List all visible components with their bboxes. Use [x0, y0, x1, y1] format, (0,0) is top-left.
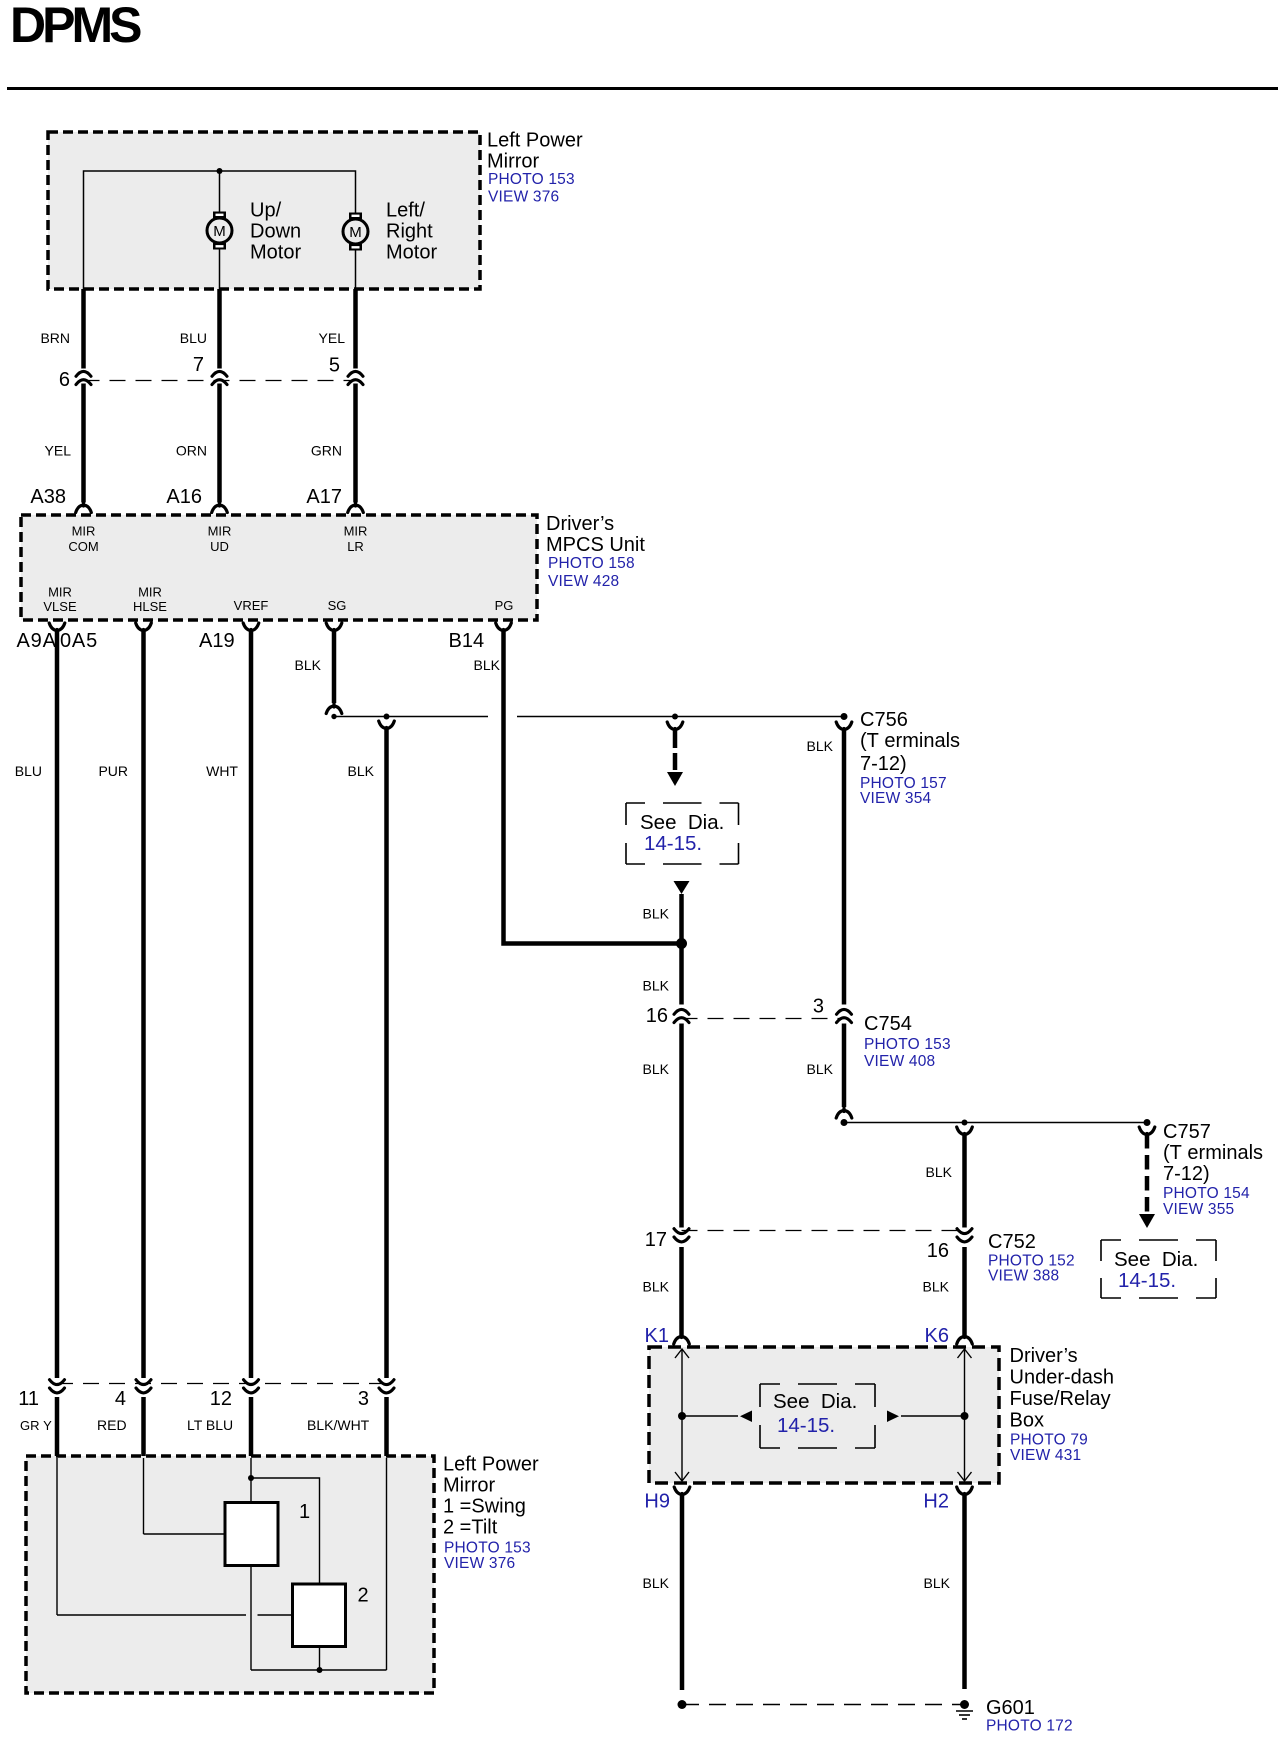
svg-text:VREF: VREF — [234, 598, 269, 613]
svg-text:YEL: YEL — [45, 443, 72, 459]
svg-text:RED: RED — [97, 1417, 127, 1433]
svg-text:K6: K6 — [925, 1325, 949, 1347]
svg-text:VIEW 376: VIEW 376 — [444, 1555, 515, 1572]
svg-text:A16: A16 — [166, 486, 202, 508]
svg-text:See Dia.: See Dia. — [640, 811, 724, 834]
svg-text:Right: Right — [386, 221, 433, 243]
svg-text:Fuse/Relay: Fuse/Relay — [1010, 1388, 1111, 1410]
svg-text:VIEW 431: VIEW 431 — [1010, 1447, 1081, 1464]
svg-text:(T erminals: (T erminals — [1163, 1142, 1263, 1164]
svg-text:Driver’s: Driver’s — [546, 513, 614, 535]
svg-text:A9A: A9A — [17, 630, 57, 652]
svg-text:BLK: BLK — [643, 1279, 670, 1295]
svg-text:VIEW 376: VIEW 376 — [488, 189, 559, 206]
svg-text:14-15.: 14-15. — [777, 1414, 835, 1437]
svg-text:COM: COM — [68, 539, 98, 554]
svg-text:A19: A19 — [199, 630, 235, 652]
svg-text:MIR: MIR — [48, 585, 72, 600]
svg-text:2: 2 — [358, 1585, 369, 1607]
svg-text:VIEW 388: VIEW 388 — [988, 1268, 1059, 1285]
svg-text:Motor: Motor — [250, 242, 301, 264]
svg-text:BLK: BLK — [923, 1279, 950, 1295]
svg-text:1 =Swing: 1 =Swing — [443, 1496, 526, 1518]
svg-text:16: 16 — [646, 1005, 668, 1027]
svg-text:H2: H2 — [923, 1491, 949, 1513]
svg-text:0A5: 0A5 — [60, 630, 98, 652]
svg-text:MIR: MIR — [344, 524, 368, 539]
svg-text:7-12): 7-12) — [1163, 1163, 1210, 1185]
svg-text:C757: C757 — [1163, 1121, 1211, 1143]
svg-text:Mirror: Mirror — [443, 1475, 496, 1497]
svg-text:PHOTO 158: PHOTO 158 — [548, 555, 635, 572]
svg-text:BLK: BLK — [807, 1061, 834, 1077]
svg-text:SG: SG — [328, 598, 347, 613]
svg-text:14-15.: 14-15. — [1118, 1269, 1176, 1292]
svg-text:C756: C756 — [860, 709, 908, 731]
svg-text:VIEW 408: VIEW 408 — [864, 1053, 935, 1070]
svg-text:PHOTO 153: PHOTO 153 — [488, 171, 575, 188]
svg-text:Left/: Left/ — [386, 200, 425, 222]
svg-text:PHOTO 153: PHOTO 153 — [444, 1540, 531, 1557]
svg-text:VIEW 354: VIEW 354 — [860, 790, 932, 807]
svg-text:ORN: ORN — [176, 443, 207, 459]
svg-text:VIEW 428: VIEW 428 — [548, 573, 619, 590]
svg-text:MPCS Unit: MPCS Unit — [546, 534, 645, 556]
svg-text:14-15.: 14-15. — [644, 832, 702, 855]
svg-text:BLK: BLK — [643, 1061, 670, 1077]
svg-text:Driver’s: Driver’s — [1010, 1345, 1078, 1367]
svg-text:BLU: BLU — [180, 330, 207, 346]
svg-text:BLK: BLK — [924, 1575, 951, 1591]
svg-text:Left Power: Left Power — [443, 1454, 539, 1476]
svg-text:PG: PG — [495, 598, 514, 613]
svg-text:LT BLU: LT BLU — [187, 1417, 233, 1433]
svg-text:A17: A17 — [306, 486, 342, 508]
svg-text:6: 6 — [59, 369, 70, 391]
svg-text:HLSE: HLSE — [133, 599, 167, 614]
svg-text:Up/: Up/ — [250, 200, 282, 222]
svg-text:Under-dash: Under-dash — [1010, 1367, 1115, 1389]
svg-text:GRN: GRN — [311, 443, 342, 459]
svg-text:B14: B14 — [449, 630, 485, 652]
svg-text:Left Power: Left Power — [487, 130, 583, 152]
svg-text:UD: UD — [210, 539, 229, 554]
svg-text:12: 12 — [210, 1388, 232, 1410]
svg-text:BLU: BLU — [15, 763, 42, 779]
svg-text:See Dia.: See Dia. — [773, 1390, 857, 1413]
svg-text:BLK: BLK — [926, 1164, 953, 1180]
svg-text:M: M — [349, 224, 362, 241]
svg-text:M: M — [213, 223, 226, 240]
svg-text:PHOTO 154: PHOTO 154 — [1163, 1185, 1250, 1202]
svg-text:YEL: YEL — [319, 330, 346, 346]
svg-text:(T erminals: (T erminals — [860, 730, 960, 752]
svg-text:7: 7 — [193, 354, 204, 376]
svg-text:16: 16 — [927, 1240, 949, 1262]
svg-text:11: 11 — [18, 1388, 39, 1410]
svg-text:VIEW 355: VIEW 355 — [1163, 1201, 1234, 1218]
svg-text:PUR: PUR — [98, 763, 128, 779]
svg-text:BLK: BLK — [643, 1575, 670, 1591]
svg-text:5: 5 — [329, 355, 340, 377]
svg-text:3: 3 — [358, 1388, 369, 1410]
svg-text:1: 1 — [299, 1501, 310, 1523]
svg-text:VLSE: VLSE — [43, 599, 77, 614]
svg-text:4: 4 — [115, 1388, 126, 1410]
svg-text:Mirror: Mirror — [487, 151, 540, 173]
svg-text:MIR: MIR — [138, 585, 162, 600]
svg-text:DPMS: DPMS — [10, 0, 141, 53]
svg-text:C754: C754 — [864, 1013, 912, 1035]
svg-text:PHOTO 153: PHOTO 153 — [864, 1036, 951, 1053]
svg-text:Down: Down — [250, 221, 301, 243]
svg-text:BLK: BLK — [348, 763, 375, 779]
svg-text:17: 17 — [645, 1229, 667, 1251]
svg-text:LR: LR — [347, 539, 364, 554]
svg-text:BLK: BLK — [643, 906, 670, 922]
svg-text:BLK: BLK — [474, 657, 501, 673]
svg-text:MIR: MIR — [208, 524, 232, 539]
svg-text:PHOTO 79: PHOTO 79 — [1010, 1432, 1088, 1449]
svg-text:See Dia.: See Dia. — [1114, 1248, 1198, 1271]
svg-text:7-12): 7-12) — [860, 753, 907, 775]
svg-text:2 =Tilt: 2 =Tilt — [443, 1517, 498, 1539]
svg-text:GR Y: GR Y — [20, 1418, 52, 1433]
svg-text:MIR: MIR — [72, 524, 96, 539]
svg-text:PHOTO 172: PHOTO 172 — [986, 1718, 1073, 1735]
svg-text:Motor: Motor — [386, 242, 437, 264]
svg-text:G601: G601 — [986, 1697, 1035, 1719]
svg-text:BLK: BLK — [643, 978, 670, 994]
svg-text:WHT: WHT — [206, 763, 238, 779]
svg-text:Box: Box — [1010, 1410, 1044, 1432]
svg-text:BLK: BLK — [807, 738, 834, 754]
svg-text:3: 3 — [813, 996, 824, 1018]
svg-text:C752: C752 — [988, 1231, 1036, 1253]
svg-text:H9: H9 — [644, 1491, 670, 1513]
svg-text:BLK: BLK — [295, 657, 322, 673]
svg-text:BLK/WHT: BLK/WHT — [307, 1417, 370, 1433]
svg-text:A38: A38 — [30, 486, 66, 508]
svg-text:K1: K1 — [645, 1325, 669, 1347]
svg-text:BRN: BRN — [40, 330, 70, 346]
